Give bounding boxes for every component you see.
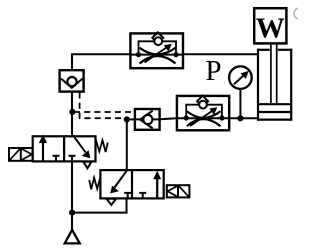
faint partial circle top right — [294, 8, 305, 19]
wire: pressure gauge stem — [239, 89, 241, 118]
spring of valve V1 (right side) — [96, 140, 108, 152]
pilot line: dashed from junction A to CV1 left edge — [74, 111, 135, 113]
piston rod (double line) — [271, 44, 277, 104]
wire: valve V2 top pipe up to middle junction — [126, 119, 128, 170]
wire: valve V1 bottom pipe down to exhaust triangle — [71, 161, 73, 230]
actuator of valve V1 (solenoid + pilot, left side) — [9, 148, 33, 161]
svg-text:P: P — [205, 55, 221, 87]
junction dot A (on CV0-V1 pipe) — [69, 109, 75, 115]
spring of valve V2 (left side) — [89, 177, 100, 190]
pressure gauge — [229, 66, 252, 89]
flow control valve FCV2 (middle, with check bypass) — [177, 96, 229, 131]
wire: vertical pipe CV0 bottom to valve V1 top — [71, 92, 73, 137]
check valve CV0 (top left, vertical) — [60, 70, 84, 91]
directional valve V1 (3/2, upper left) — [33, 135, 96, 169]
weight W box — [254, 8, 286, 45]
wire: top-left pipe from check valve CV0 up and right to flow control FCV1 — [72, 54, 130, 70]
junction dot D (bottom) — [69, 210, 75, 216]
cylinder body — [257, 49, 292, 121]
wire: CV1 to FCV2 — [160, 118, 178, 119]
svg-text:W: W — [256, 13, 285, 45]
exhaust triangle (bottom) — [65, 230, 80, 244]
wire: bottom link pipe from junction to valve V2 bottom — [72, 198, 126, 212]
wire: FCV2 to cylinder bottom port — [229, 117, 258, 119]
actuator of valve V2 (pilot + solenoid, right side) — [167, 185, 190, 197]
junction dot B (middle, above valve V2) — [124, 116, 130, 122]
flow control valve FCV1 (top, with check bypass) — [130, 32, 183, 68]
wire: top pipe from FCV1 to cylinder left wall — [183, 53, 258, 55]
directional valve V2 (3/2, lower middle) — [100, 170, 163, 205]
pilot-operated check valve CV1 (middle) — [135, 109, 160, 130]
pilot line: dashed L-shape from below CV0 to middle junction — [80, 93, 123, 119]
wire: middle junction to pilot check valve CV1 — [127, 118, 135, 120]
junction dot C (gauge stem) — [237, 115, 243, 121]
piston — [259, 104, 290, 112]
